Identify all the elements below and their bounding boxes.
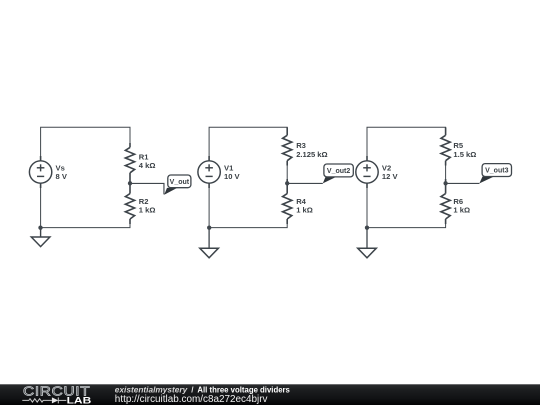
svg-text:2.125 kΩ: 2.125 kΩ <box>296 150 327 159</box>
svg-text:V_out3: V_out3 <box>485 168 508 175</box>
svg-text:V_out: V_out <box>170 179 190 186</box>
svg-text:http://circuitlab.com/c8a272ec: http://circuitlab.com/c8a272ec4bjrv <box>115 394 268 405</box>
svg-text:1 kΩ: 1 kΩ <box>296 206 313 215</box>
svg-text:10 V: 10 V <box>224 172 241 181</box>
svg-text:12 V: 12 V <box>382 172 399 181</box>
svg-text:LAB: LAB <box>67 395 92 405</box>
svg-text:1.5 kΩ: 1.5 kΩ <box>453 150 476 159</box>
svg-text:8 V: 8 V <box>56 172 68 181</box>
svg-text:1 kΩ: 1 kΩ <box>453 206 470 215</box>
svg-text:4 kΩ: 4 kΩ <box>139 161 156 170</box>
svg-text:1 kΩ: 1 kΩ <box>139 206 156 215</box>
svg-text:V_out2: V_out2 <box>327 168 350 175</box>
